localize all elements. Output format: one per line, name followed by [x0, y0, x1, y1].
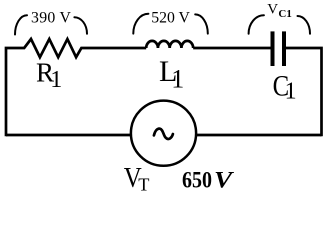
- svg-text:T: T: [138, 175, 149, 195]
- svg-text:C1: C1: [278, 8, 291, 20]
- svg-text:1: 1: [171, 64, 184, 93]
- svg-text:V: V: [267, 2, 278, 18]
- svg-text:V: V: [214, 167, 235, 193]
- svg-text:1: 1: [285, 78, 297, 104]
- svg-text:1: 1: [50, 67, 62, 93]
- svg-text:520 V: 520 V: [151, 10, 190, 27]
- svg-text:650: 650: [182, 167, 212, 192]
- svg-text:390 V: 390 V: [31, 10, 72, 27]
